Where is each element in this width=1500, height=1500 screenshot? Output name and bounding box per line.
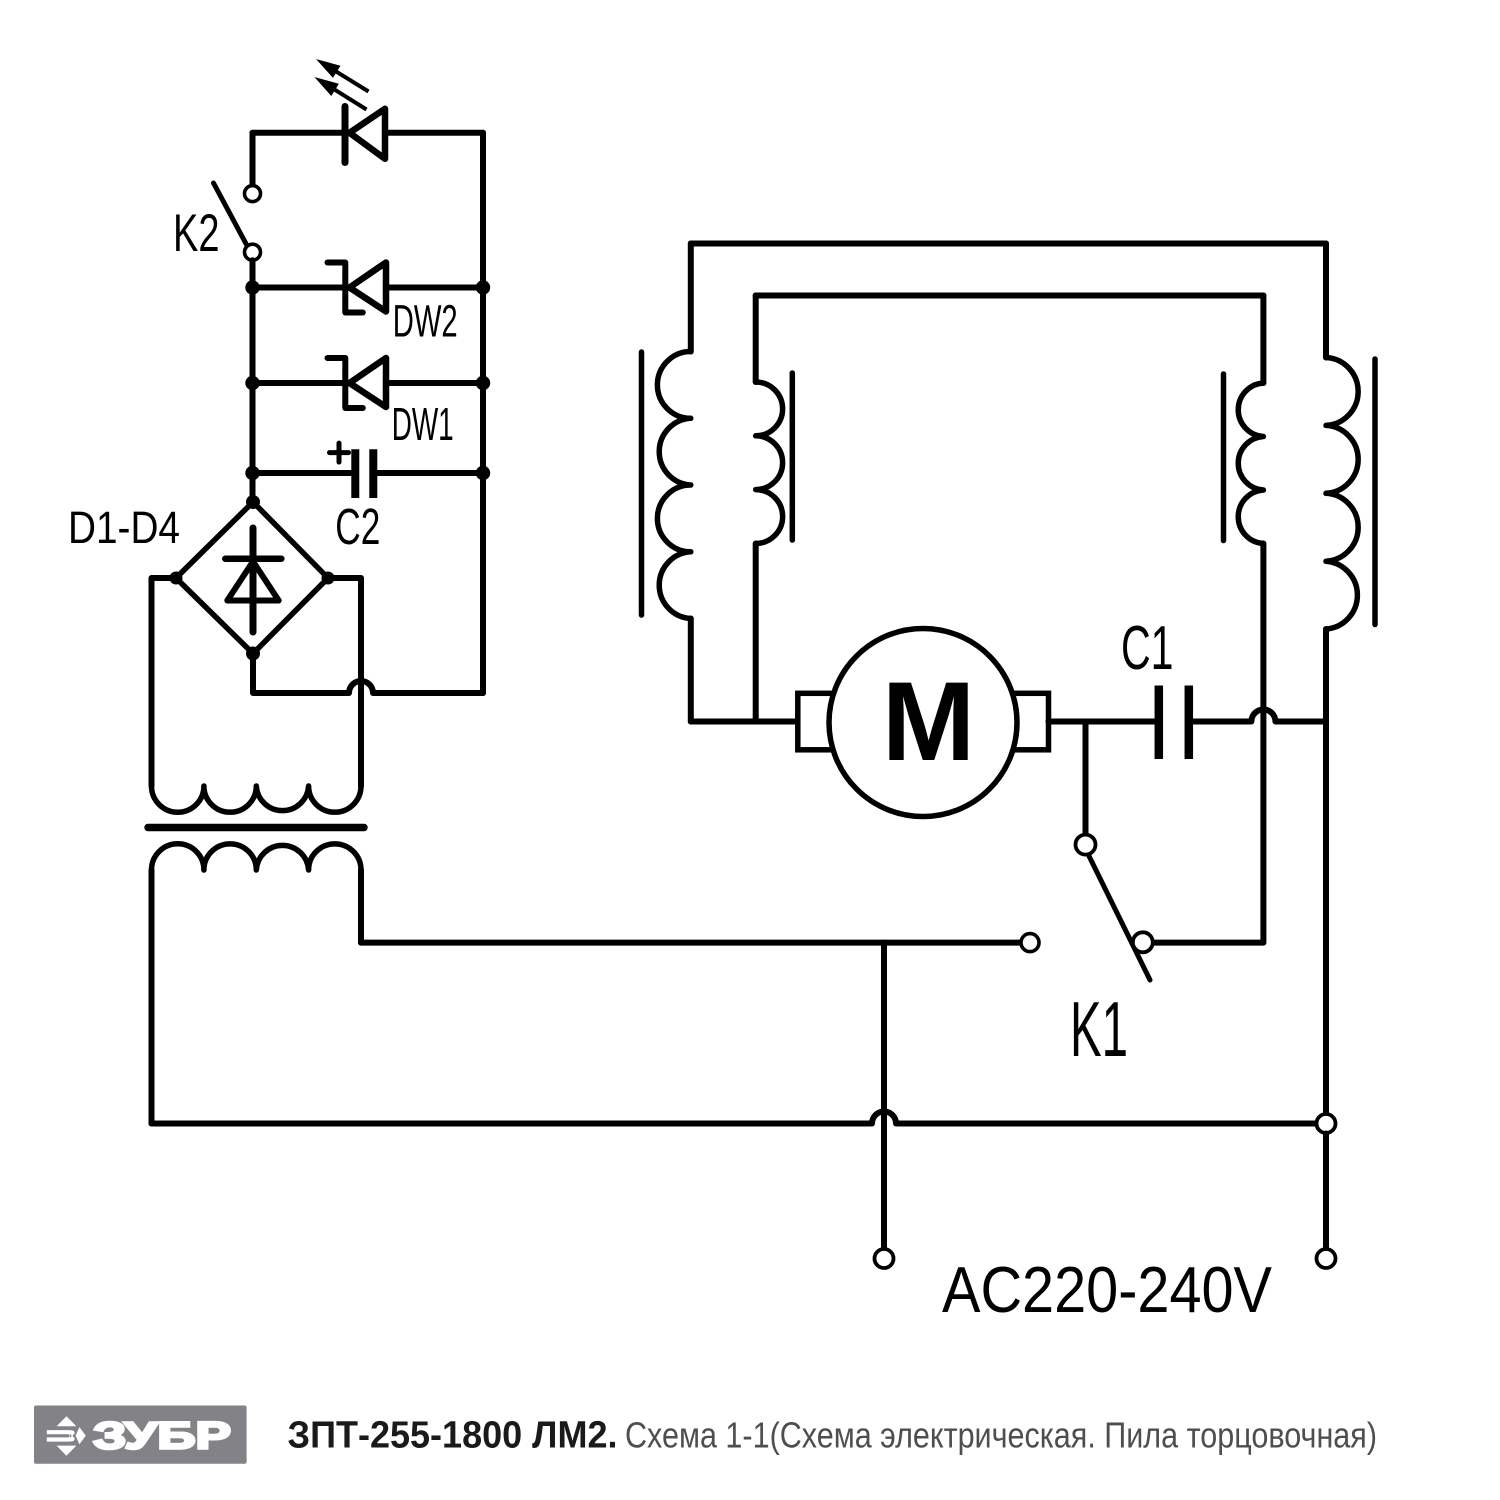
switch K2 bottom contact xyxy=(245,244,261,260)
svg-text:K1: K1 xyxy=(1070,987,1128,1073)
bridge rectifier internal diode line xyxy=(250,528,257,632)
node - junction left rail / DW1 xyxy=(245,376,259,390)
wire - inner-left rail down to winding xyxy=(753,296,759,383)
wire - bridge right node to primary right lead (crosses return wire with hop) xyxy=(328,578,361,786)
node - bridge AC bottom xyxy=(246,647,260,661)
wire - bridge left node to transformer primary left lead xyxy=(152,578,177,786)
wire - right rail to AC terminal N xyxy=(1323,1134,1329,1250)
svg-text:C1: C1 xyxy=(1121,614,1174,683)
zener diode DW2 cathode bar xyxy=(328,263,363,313)
wire - left rail DW2 to DW1 xyxy=(250,288,256,384)
wire - LED row right segment xyxy=(385,130,483,136)
field winding L2 (inner left) xyxy=(756,382,783,544)
field winding L1 (outer left) xyxy=(657,352,690,619)
svg-text:C2: C2 xyxy=(335,498,380,555)
wire - DW2 anode side xyxy=(253,285,343,291)
wire - outer-right rail down to winding xyxy=(1323,244,1329,358)
core bar of L4 xyxy=(1372,359,1378,625)
transformer T1 secondary winding xyxy=(152,844,362,870)
svg-text:ЗУБР: ЗУБР xyxy=(93,1415,231,1458)
node - junction right rail / DW2 xyxy=(476,280,490,294)
terminal - junction bottom bus / right rail xyxy=(1317,1114,1336,1133)
switch K1 bottom contact xyxy=(1133,932,1153,952)
switch K2 top contact xyxy=(245,186,261,202)
zener diode DW1 triangle xyxy=(350,358,387,407)
field winding L3 (inner right) xyxy=(1238,383,1263,544)
LED HL1 emission arrow upper xyxy=(335,71,369,92)
zener diode DW2 triangle xyxy=(350,263,387,312)
wire - left rail DW1 to C2 xyxy=(250,383,256,473)
motor M1 left brush xyxy=(798,693,834,750)
wire - L3 bottom down to K1 (passes under hop) xyxy=(1153,544,1264,943)
footer logo diamond icon xyxy=(47,1416,86,1456)
node - junction left rail / C2 xyxy=(245,466,259,480)
capacitor C2 right plate xyxy=(369,449,377,498)
wire - C1 to outer right rail with hop over inner rail xyxy=(1193,710,1326,722)
core bar of L3 xyxy=(1221,374,1227,541)
node - junction left rail / DW2 xyxy=(245,280,259,294)
wire - outer-left rail down to winding xyxy=(688,244,694,352)
terminal - AC supply right xyxy=(1317,1249,1336,1268)
wire - LED row left segment xyxy=(253,130,342,136)
svg-text:K2: K2 xyxy=(173,204,220,263)
wire - K2 to DW2 row xyxy=(250,260,256,287)
wire - motor wire right segment to C1 xyxy=(1049,719,1155,725)
zener diode DW1 cathode bar xyxy=(328,358,363,408)
switch K2 lever xyxy=(214,183,248,247)
LED HL1 emission arrow lower xyxy=(333,89,367,110)
capacitor C2 left plate xyxy=(351,449,359,498)
wire - outer top bus xyxy=(691,241,1326,247)
wire - K1 feed wire from secondary xyxy=(361,940,1021,946)
wire - branch down to AC terminal L xyxy=(881,943,887,1249)
node - bridge DC right xyxy=(322,572,335,585)
wire - L2 bottom to motor wire xyxy=(753,544,759,722)
footer logo box xyxy=(34,1406,247,1464)
wire - left rail (LED corner down to K2) xyxy=(250,133,256,186)
wire - outer-right rail winding to AC junction xyxy=(1323,629,1329,1114)
capacitor C1 left plate xyxy=(1155,686,1164,760)
wire - bottom bus with hop over AC-L branch xyxy=(152,1112,1317,1124)
svg-text:AC220-240V: AC220-240V xyxy=(942,1254,1272,1326)
svg-text:ЗПТ-255-1800 ЛМ2.: ЗПТ-255-1800 ЛМ2. xyxy=(288,1415,618,1457)
wire - right rail DW1 to C2 xyxy=(480,383,486,473)
wire - DW1 cathode side xyxy=(386,380,483,386)
switch K1 top contact xyxy=(1076,835,1096,855)
wire - C2 right lead xyxy=(377,470,483,476)
wire - DW1 anode side xyxy=(253,380,343,386)
svg-text:D1-D4: D1-D4 xyxy=(68,502,180,553)
capacitor C1 right plate xyxy=(1185,686,1194,760)
node - bridge DC left xyxy=(170,572,183,585)
wire - K1 top lead from motor wire xyxy=(1083,722,1089,835)
wire - inner top bus xyxy=(756,293,1264,299)
core bar of L2 xyxy=(790,373,796,540)
capacitor C2 plus sign xyxy=(330,443,349,462)
transformer T1 core xyxy=(148,824,364,832)
wire - secondary left lead down to bottom bus xyxy=(149,870,155,1124)
svg-text:DW1: DW1 xyxy=(392,398,454,450)
terminal - AC supply left xyxy=(875,1249,894,1268)
bridge rectifier D1-D4 diamond xyxy=(176,502,328,654)
field winding L4 (outer right) xyxy=(1326,358,1358,630)
motor M1 body xyxy=(829,629,1017,817)
svg-text:DW2: DW2 xyxy=(393,296,458,347)
wire - L1 bottom to motor wire xyxy=(688,619,694,722)
wire - inner-right rail down to winding xyxy=(1260,296,1266,384)
LED HL1 triangle xyxy=(350,109,386,159)
wire - left rail C2 to bridge top xyxy=(250,473,256,497)
switch K1 lever xyxy=(1089,855,1151,980)
bridge rectifier internal diode cathode bar xyxy=(225,555,281,562)
wire - motor wire left segment xyxy=(691,719,798,725)
motor M1 right brush xyxy=(1011,693,1049,750)
bridge rectifier internal diode triangle xyxy=(227,562,278,601)
wire - bridge bottom node to right rail with hop over primary lead xyxy=(253,654,483,694)
wire - secondary right lead down to K1 feed wire xyxy=(358,870,364,943)
transformer T1 primary winding xyxy=(152,786,362,812)
svg-text:M: M xyxy=(882,659,975,784)
wire - right rail C2 down to bottom return xyxy=(480,473,486,693)
node - bridge AC top xyxy=(246,495,260,509)
LED HL1 cathode bar xyxy=(342,107,349,163)
core bar of L1 xyxy=(639,352,645,615)
node - junction right rail / DW1 xyxy=(476,376,490,390)
svg-text:Схема 1-1(Схема электрическая.: Схема 1-1(Схема электрическая. Пила торц… xyxy=(625,1415,1377,1456)
terminal - K1 feed contact xyxy=(1021,934,1039,952)
wire - DW2 cathode side xyxy=(386,285,483,291)
wire - C2 left lead xyxy=(253,470,352,476)
wire - right rail (LED corner down to DW2 row) xyxy=(480,133,486,288)
wire - right rail DW2 to DW1 xyxy=(480,288,486,384)
node - junction right rail / C2 xyxy=(476,466,490,480)
